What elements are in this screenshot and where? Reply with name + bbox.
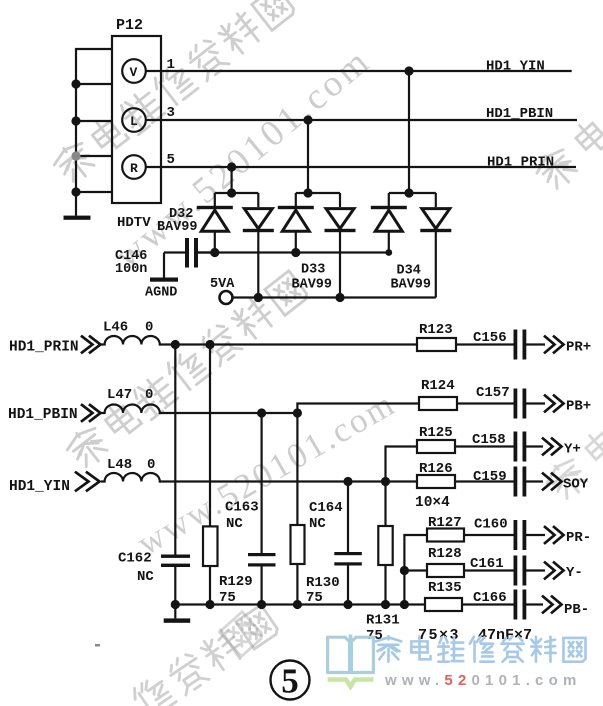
inductor L48 (101, 473, 161, 482)
svg-text:C157: C157 (476, 385, 510, 401)
svg-text:C161: C161 (470, 556, 504, 572)
resistor R126 (417, 475, 455, 488)
svg-text:D33: D33 (301, 263, 325, 278)
connector P12 pin circle L (122, 108, 146, 132)
connector P12 body (112, 36, 161, 203)
capacitor C159 output lead (526, 480, 543, 482)
wire ground stub (76, 155, 112, 157)
svg-text:R130: R130 (306, 575, 340, 591)
node clamp rail at D32a (210, 248, 219, 257)
capacitor C158 output lead (526, 445, 543, 447)
svg-text:D34: D34 (397, 264, 421, 279)
wire 5VA rail (233, 296, 436, 298)
wire pin5 R to HD1 PRIN (146, 166, 576, 168)
diode pair D33 top rail (296, 192, 340, 194)
watermark tail bottom-left (129, 603, 279, 706)
svg-text:HD1_PBIN: HD1_PBIN (486, 106, 553, 122)
resistor R127 (427, 529, 464, 542)
capacitor C164 plates (334, 552, 362, 555)
capacitor C146 leads (164, 251, 185, 253)
node 5VA rail at D33b (335, 293, 344, 302)
svg-text:HD1_PBIN: HD1_PBIN (8, 407, 78, 423)
svg-text:HDTV: HDTV (117, 215, 151, 231)
column PBIN to C163 (261, 413, 263, 553)
svg-text:L47: L47 (107, 387, 132, 403)
svg-text:100n: 100n (115, 262, 147, 277)
sheet number 5 (271, 661, 310, 701)
watermark lone glyph bottom-center (219, 612, 264, 657)
svg-text:C156: C156 (473, 330, 507, 346)
svg-text:R124: R124 (421, 378, 455, 394)
output chevron Y- (545, 563, 555, 579)
node 5VA rail at D32b (254, 293, 263, 302)
input chevron HD1_PBIN (82, 405, 93, 421)
svg-text:PB-: PB- (564, 602, 589, 618)
capacitor C157 plates (514, 389, 518, 419)
svg-text:SOY: SOY (563, 477, 589, 493)
svg-text:0: 0 (145, 320, 153, 336)
svg-text:75: 75 (306, 590, 323, 606)
svg-text:C159: C159 (473, 469, 507, 485)
svg-text:P12: P12 (116, 17, 143, 34)
node PRIN row to C162 (171, 340, 180, 349)
node clamp rail at D33a (291, 248, 300, 257)
wire ground stub pin4 (76, 120, 112, 122)
column R127 R128 to ground rail (404, 535, 427, 605)
output chevron Y+ (543, 439, 553, 455)
node D32 top junction (227, 188, 236, 197)
svg-text:L: L (130, 114, 138, 129)
svg-text:HD1_PRIN: HD1_PRIN (9, 340, 79, 356)
connector P12 pin circle R (122, 155, 146, 179)
svg-text:L48: L48 (107, 457, 132, 473)
wire dropper HD1 PRIN to D32 (231, 167, 233, 194)
wire R128 lead (404, 569, 427, 571)
node YIN row to R131 and R125 riser (381, 477, 390, 486)
output chevron PR- (545, 527, 555, 543)
scan speck (95, 644, 100, 647)
svg-text:C164: C164 (309, 500, 343, 516)
output chevron SOY (543, 474, 553, 490)
column YIN to C164 (347, 482, 349, 553)
capacitor C160 plates (514, 520, 518, 550)
resistor R125 (417, 440, 455, 453)
wire riser PBIN to R124 (297, 404, 419, 414)
logo url line (385, 672, 582, 689)
svg-text:PR+: PR+ (566, 340, 591, 356)
capacitor C163 plates (248, 553, 276, 556)
node P12 ground rail junction pin2 (71, 79, 80, 88)
diode pair D32 top rail (215, 192, 258, 194)
diode D34a body (371, 206, 407, 209)
node ground rail at C162 (171, 600, 180, 609)
svg-text:Y+: Y+ (564, 442, 581, 458)
watermark diagonal 1: brand glyphs top-left (50, 0, 296, 187)
capacitor C162 plates (161, 555, 190, 558)
connector P12 pin circle V (122, 59, 146, 83)
node HD1 PRIN junction (227, 162, 236, 171)
resistor R128 (427, 564, 464, 577)
svg-text:5: 5 (167, 152, 175, 168)
svg-text:L46: L46 (103, 320, 128, 336)
resistor R130 vertical (291, 525, 305, 564)
svg-text:R135: R135 (428, 580, 462, 596)
svg-text:0: 0 (145, 387, 153, 403)
svg-text:PB+: PB+ (566, 399, 591, 415)
svg-text:10×4: 10×4 (415, 495, 450, 511)
svg-text:NC: NC (137, 569, 154, 585)
node ground rail at R130 (293, 600, 302, 609)
node P12 ground rail junction (faded) (71, 151, 80, 160)
capacitor C161 plates (514, 556, 518, 586)
node ground rail at R127/R128 branch (400, 600, 409, 609)
ground bottom-left bar (164, 618, 191, 622)
node P12 ground rail junction pin4 (71, 116, 80, 125)
capacitor C157 output lead (526, 402, 545, 404)
column PBIN to R130 (296, 413, 298, 525)
capacitor C166 output lead (526, 603, 543, 605)
svg-text:HD1_YIN: HD1_YIN (9, 479, 70, 495)
svg-text:AGND: AGND (145, 286, 177, 301)
wire ground stub pin2 (76, 83, 112, 85)
wire pin3 L to HD1_PBIN (146, 119, 577, 121)
ground stub bottom left (174, 605, 176, 619)
svg-text:HD1 PRIN: HD1 PRIN (487, 155, 554, 171)
svg-text:0: 0 (147, 457, 155, 473)
node ground rail at C163 (257, 600, 266, 609)
capacitor C159 plates (514, 467, 518, 497)
input chevron HD1_PRIN (76, 337, 564, 613)
diode D34b body (422, 209, 450, 229)
column PRIN to R129 (209, 345, 211, 527)
node R128 tap junction (400, 566, 409, 575)
diode D33b leads (339, 193, 341, 207)
svg-text:BAV99: BAV99 (391, 278, 432, 293)
watermark diagonal 3: brand glyphs middle-left (63, 269, 309, 472)
node YIN row to C164 (343, 477, 352, 486)
svg-text:R131: R131 (366, 613, 400, 629)
svg-text:75: 75 (219, 590, 236, 606)
svg-text:PR-: PR- (566, 530, 591, 546)
resistor R135 (425, 598, 462, 611)
output chevron PB+ (545, 396, 555, 412)
node clamp rail at D34a (385, 249, 392, 256)
svg-text:NC: NC (309, 516, 326, 532)
svg-text:R125: R125 (419, 425, 453, 441)
svg-text:C166: C166 (473, 590, 507, 606)
svg-text:5: 5 (281, 662, 299, 701)
ground P12 bar (64, 216, 91, 220)
node ground rail at C164 (343, 600, 352, 609)
svg-text:BAV99: BAV99 (157, 220, 198, 235)
inductor L47 (101, 405, 161, 414)
input chevron HD1_YIN (76, 473, 89, 491)
svg-text:C160: C160 (474, 517, 508, 533)
svg-text:R127: R127 (428, 515, 462, 531)
svg-text:BAV99: BAV99 (292, 278, 333, 293)
resistor R131 vertical (378, 526, 392, 565)
node ground rail at R131 (381, 600, 390, 609)
wire dropper HD1_PBIN to D33 (307, 120, 309, 194)
node 5VA terminal circle (220, 291, 233, 304)
logo book icon (325, 631, 377, 693)
output chevron PB- (543, 597, 553, 613)
wire pin1 V to HD1 YIN (146, 70, 572, 72)
resistor R129 vertical (203, 526, 218, 566)
svg-text:V: V (130, 65, 138, 80)
output chevron PR+ (545, 337, 555, 353)
diode D33b body (326, 209, 354, 229)
wire clamp ground rail (198, 251, 389, 253)
node HD1_PBIN junction (303, 115, 312, 124)
svg-text:Y-: Y- (566, 565, 583, 581)
node ground rail at R129 (205, 600, 214, 609)
svg-text:C162: C162 (118, 551, 152, 567)
svg-text:R123: R123 (419, 322, 453, 338)
capacitor C156 output lead (526, 343, 545, 345)
resistor R124 (419, 397, 457, 410)
wire left ground rail of P12 (76, 49, 112, 216)
node PBIN row to R130 and R124 riser (293, 408, 302, 417)
capacitor C160 output lead (526, 534, 545, 536)
inductor L46 (101, 336, 161, 345)
diode D34a leads (388, 193, 390, 207)
diode D34b leads (435, 193, 437, 207)
svg-text:3: 3 (167, 105, 175, 121)
svg-text:R129: R129 (219, 574, 253, 590)
node D34 top junction (404, 188, 413, 197)
resistor R123 (417, 338, 456, 351)
diode D32a body (197, 206, 233, 209)
node PBIN row to C163 (257, 408, 266, 417)
diode D32b leads (257, 193, 259, 207)
watermark diagonal 4: www.520101.com lower (131, 383, 403, 562)
node D33 top junction (303, 188, 312, 197)
capacitor C161 output lead (526, 569, 545, 571)
capacitor C156 plates (514, 330, 518, 360)
node HD1 YIN junction (404, 66, 413, 75)
wire ground stub pin6 (76, 191, 112, 193)
svg-text:R128: R128 (428, 546, 462, 562)
diode pair D34 top rail (389, 192, 436, 194)
diode D33a body (278, 206, 314, 209)
diode D32b body (244, 209, 272, 229)
capacitor C158 plates (514, 432, 518, 462)
svg-text:C158: C158 (472, 432, 506, 448)
watermark right-middle pair (542, 425, 603, 504)
svg-text:NC: NC (226, 516, 243, 532)
svg-text:R: R (130, 161, 138, 176)
svg-text:HD1 YIN: HD1 YIN (486, 59, 545, 75)
svg-text:R126: R126 (419, 461, 453, 477)
diode D32a leads (214, 193, 216, 207)
node P12 ground rail junction pin6 (71, 187, 80, 196)
wire HD1_YIN row (160, 480, 417, 482)
capacitor C146 plates (185, 238, 189, 268)
capacitor C166 plates (514, 590, 518, 620)
node PRIN row to R129 (205, 340, 214, 349)
svg-text:5VA: 5VA (210, 277, 235, 292)
column PRIN to C162 (174, 345, 176, 556)
wire riser YIN to R125 (386, 447, 418, 482)
wire HD1_PBIN row (160, 412, 298, 414)
svg-text:1: 1 (167, 57, 175, 73)
watermark diagonal 2: www.520101.com (107, 40, 378, 277)
logo brand glyphs (vector) (374, 635, 596, 665)
svg-text:C163: C163 (225, 500, 259, 516)
wire HD1_PRIN row (160, 343, 417, 345)
ground AGND bar (150, 278, 178, 282)
wire dropper HD1 YIN to D34 (408, 71, 410, 194)
column YIN through R131 (384, 482, 386, 527)
ground rail bottom (175, 603, 425, 605)
diode D33a leads (295, 193, 297, 207)
watermark right-top pair (532, 115, 603, 194)
